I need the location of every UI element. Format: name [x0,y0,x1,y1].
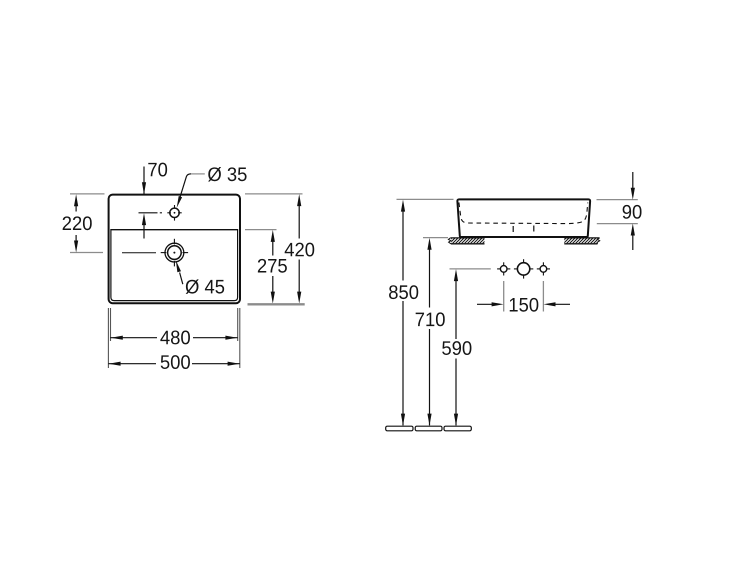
dimension 590 [442,269,471,426]
tap hole left [497,262,510,275]
basin interior dashed line [459,203,588,224]
right bottom extension line [248,303,305,305]
dimension 70 [139,163,168,239]
tap hole circle [167,205,181,221]
dimension 500 [108,355,240,369]
dimension 275 [245,230,287,304]
dimension 850 [389,200,418,426]
floor bar 2 [415,426,442,431]
extension line countertop left [423,237,448,239]
floor bar 3 [444,426,471,431]
extension line basin rim left [397,198,454,200]
tap hole middle [514,259,533,278]
drain centerline dash [122,252,156,254]
countertop right section [564,238,599,244]
floor bar 1 [386,426,413,431]
extension line holes left [450,268,491,270]
basin outer outline [109,195,240,304]
drain recess dashes [513,226,534,233]
dimension 480 [110,331,238,345]
drain circle [161,239,188,267]
extension lines below basin [108,308,239,368]
dimension 220 [63,194,105,253]
dimension 420 [245,194,314,304]
basin inner rim [111,230,238,301]
dimension 710 [416,238,445,426]
dimension 150 [477,281,570,312]
label Ø45 leader [176,260,224,294]
dimension 90 [597,172,642,250]
label Ø35 leader [177,167,247,208]
tap hole right [537,262,550,275]
countertop left section [448,238,484,244]
basin profile outline [457,199,590,237]
